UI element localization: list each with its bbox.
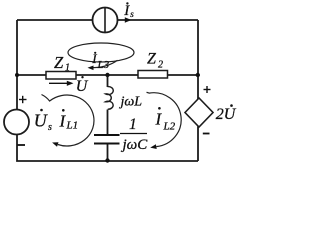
svg-text:I: I — [123, 3, 130, 19]
svg-text:I: I — [155, 109, 163, 128]
svg-text:jωC: jωC — [121, 137, 149, 153]
svg-text:1: 1 — [65, 63, 70, 74]
svg-text:L3: L3 — [97, 59, 110, 71]
svg-text:L1: L1 — [66, 119, 79, 131]
svg-text:jωL: jωL — [119, 95, 143, 110]
svg-text:Z: Z — [54, 53, 64, 72]
svg-text:2: 2 — [216, 106, 224, 123]
svg-text:L2: L2 — [163, 121, 176, 133]
svg-text:U: U — [34, 111, 48, 131]
svg-text:1: 1 — [129, 116, 137, 133]
svg-text:2: 2 — [158, 60, 163, 71]
svg-text:U: U — [76, 78, 89, 95]
svg-text:U: U — [224, 106, 237, 123]
svg-text:Z: Z — [147, 51, 157, 68]
svg-text:s: s — [48, 122, 52, 133]
svg-text:s: s — [130, 9, 134, 19]
svg-text:I: I — [59, 111, 67, 130]
